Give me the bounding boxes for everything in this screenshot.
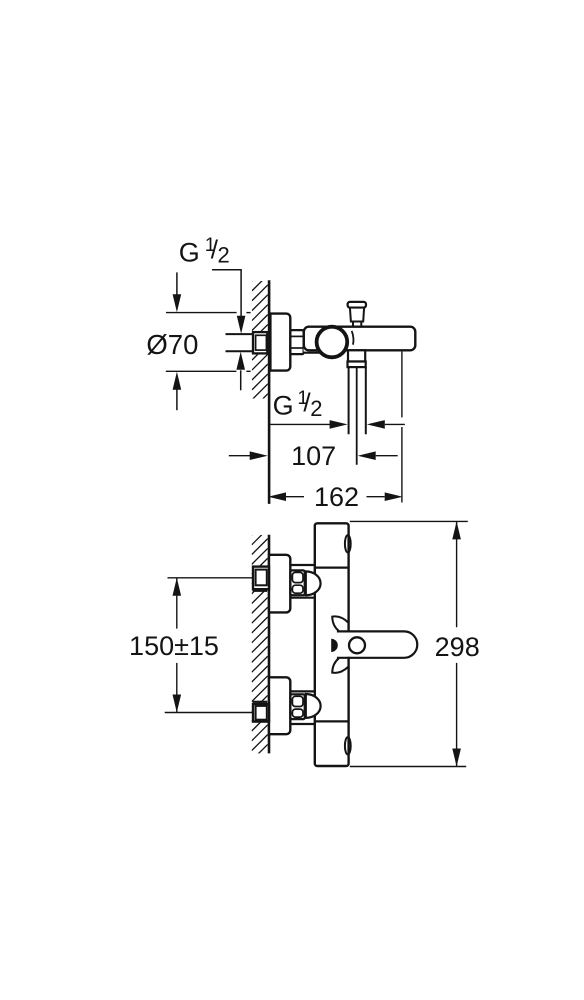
union nut facet line lower <box>291 347 303 349</box>
extension line upper connection <box>168 577 255 579</box>
wall face line side view <box>268 280 271 504</box>
extension line spout outlet lower <box>401 427 403 503</box>
leader arrow up to pipe bottom <box>236 352 245 370</box>
pipe union fitting inner <box>256 335 267 350</box>
shower hose left line <box>348 367 350 434</box>
298 dim line upper <box>456 521 458 627</box>
leader arrow down to pipe <box>237 316 246 334</box>
leader stem up-arrow <box>240 370 242 390</box>
upper union nut plan view <box>290 570 304 595</box>
union nut side view <box>290 330 303 354</box>
Ø70 lower arrow stem <box>176 390 178 411</box>
G1/2 dim tail left <box>269 423 331 425</box>
wall face line plan view <box>268 535 271 754</box>
wall escutcheon side view <box>270 314 290 371</box>
spout fill <box>346 633 416 657</box>
lower handle lens <box>345 737 351 754</box>
lower connection boss top line <box>291 690 316 692</box>
spout outline <box>337 631 417 657</box>
107 arrow left <box>358 451 376 460</box>
svg-text:2: 2 <box>310 396 322 421</box>
upper fitting inner square <box>256 570 267 586</box>
150 dim line upper <box>176 578 178 629</box>
Ø70 upper arrow stem <box>176 272 178 295</box>
spout base petal lower <box>332 658 348 673</box>
162 dim line right <box>367 496 385 498</box>
G1/2 arrow left <box>367 420 385 429</box>
298 dim line lower <box>456 663 458 767</box>
svg-text:107: 107 <box>291 441 336 471</box>
svg-text:298: 298 <box>435 632 480 662</box>
union nut facet line upper <box>291 335 303 337</box>
upper fitting outer square <box>253 567 269 590</box>
svg-text:Ø70: Ø70 <box>146 329 198 360</box>
diverter knob neck <box>353 322 361 328</box>
upper fitting lip <box>253 590 268 592</box>
dimension Ø70 dash lines <box>166 312 237 314</box>
svg-text:2: 2 <box>218 242 230 267</box>
150 arrow up <box>173 578 182 596</box>
body silhouette arc behind handle <box>352 331 354 345</box>
svg-text:G: G <box>273 390 294 420</box>
leader line G1/2 to pipe top <box>212 270 241 317</box>
shower hose right line <box>365 367 367 434</box>
supply pipe stub <box>226 335 254 350</box>
lower fitting lip <box>253 701 268 703</box>
hose outlet nipple <box>348 350 365 361</box>
hose coupling nut band <box>348 362 366 368</box>
Ø70 arrow up <box>173 372 182 390</box>
spout base petal upper <box>332 616 348 631</box>
107 dim tail right <box>376 455 398 457</box>
eco button black mark <box>331 639 338 652</box>
faucet body side view <box>304 327 416 351</box>
150 dim line lower <box>176 663 178 713</box>
162 arrow right <box>385 492 403 501</box>
lower fitting outer square <box>253 704 269 722</box>
upper connection boss bottom line <box>291 597 316 599</box>
298 arrow up <box>452 521 461 539</box>
extension line body top <box>350 520 468 522</box>
faucet body plan view <box>315 523 349 766</box>
Ø70 arrow down <box>173 294 182 312</box>
162 dim line left <box>286 496 304 498</box>
upper nut facet b <box>292 585 303 593</box>
extension line spout outlet upper <box>401 352 403 418</box>
svg-text:162: 162 <box>314 482 359 512</box>
162 arrow left <box>268 492 286 501</box>
G1/2 arrow right <box>330 420 348 429</box>
thermostat handle circle <box>317 327 348 358</box>
diverter knob body <box>350 308 364 322</box>
upper nut facet a <box>292 572 303 582</box>
svg-text:150±15: 150±15 <box>129 631 219 661</box>
lower fitting inner square <box>256 706 267 720</box>
lower union cone dome <box>306 694 321 718</box>
connector cylinder <box>304 331 320 351</box>
107 arrow right <box>250 451 268 460</box>
298 arrow down <box>452 749 461 767</box>
hose centerline <box>356 367 358 465</box>
diverter knob cap <box>348 302 366 308</box>
lower wall escutcheon plan view <box>269 677 290 734</box>
150 arrow down <box>173 695 182 713</box>
diverter knob top view circle <box>349 637 365 653</box>
extension line body bottom <box>350 766 466 768</box>
G1/2 dim tail right <box>385 423 405 425</box>
body section line upper <box>314 566 349 568</box>
upper wall escutcheon plan view <box>269 555 290 613</box>
body section line lower <box>314 720 349 722</box>
lower nut facet b <box>292 709 303 717</box>
wall hatching side view <box>252 265 268 430</box>
svg-text:G: G <box>179 238 200 268</box>
upper union cone dome <box>306 571 321 595</box>
pipe union fitting in wall <box>253 332 267 353</box>
lower union nut plan view <box>290 694 304 719</box>
lower connection boss bottom line <box>291 723 316 725</box>
extension line lower connection <box>165 712 255 714</box>
wall hatching plan view <box>252 519 268 780</box>
upper connection boss top line <box>291 564 316 566</box>
107 dim tail left <box>229 455 250 457</box>
upper handle lens <box>345 535 351 552</box>
lower nut facet a <box>292 696 303 706</box>
